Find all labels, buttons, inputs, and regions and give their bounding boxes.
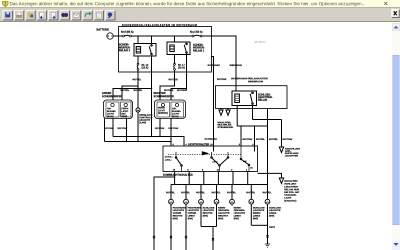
- wire: battery feed to fuse box: [113, 35, 122, 37]
- switch: combination light switch box: [163, 146, 258, 172]
- bulb: right high beam: [157, 102, 170, 117]
- wire: relay2 branch down to bus1: [151, 89, 153, 137]
- wire: relay contact pin down: [252, 106, 254, 120]
- wire: return bus 2 to light switch: [105, 141, 172, 143]
- fuse Nr.2 (50 A): [190, 30, 203, 37]
- node: bottom terminal numbers: [173, 170, 248, 172]
- wire: left low beam return: [112, 119, 114, 137]
- node: return wire colour labels: [104, 127, 179, 130]
- switch contact S1 dimmer: [165, 151, 210, 171]
- wire: relay 2 contact drop: [151, 36, 153, 44]
- wire: feed into relay: [235, 86, 237, 91]
- wire: right high beam return: [159, 119, 161, 137]
- junction dots on lamp bus: [174, 184, 248, 185]
- svg-text:(5W): (5W): [269, 215, 274, 218]
- svg-text:(1,4W): (1,4W): [139, 121, 146, 124]
- svg-text:SICHERUNGS-/RELAISKASTEN IM MO: SICHERUNGS-/RELAISKASTEN IM MOTORRAUM: [122, 24, 197, 27]
- lamp unit: right headlight: [155, 100, 186, 119]
- junction dots interior: [240, 119, 268, 127]
- node: wire colour labels above headlights: [121, 89, 188, 92]
- lamp L6 tail inner left: [246, 185, 265, 226]
- fuse Nr.13 (10 A): [137, 63, 149, 70]
- wire: left high beam return: [126, 119, 128, 142]
- wire: relay1 contact down out of box: [186, 55, 188, 91]
- scrollbar: [392, 22, 400, 250]
- wire: switch outputs to lamp bus: [175, 172, 248, 185]
- svg-text:WEISS/GN: WEISS/GN: [230, 64, 242, 67]
- svg-text:ROT/SW: ROT/SW: [243, 138, 253, 141]
- fuse Nr.9 (80 A): [121, 30, 134, 37]
- relay K2 SCHEINWERFER-RELAIS 2: [134, 44, 156, 57]
- lamp L5 licence plate left: [227, 185, 245, 221]
- fuse Nr.17 (10 A): [174, 63, 186, 70]
- svg-text:(Zt: MTxx): (Zt: MTxx): [254, 40, 266, 44]
- svg-text:ROT/EL: ROT/EL: [227, 191, 236, 194]
- svg-text:LICHTSCHALTER: LICHTSCHALTER: [188, 142, 209, 146]
- wire: mechanical link dashed: [168, 154, 242, 156]
- fuse/relay box engine compartment: [119, 27, 212, 73]
- svg-text:(FERNL): (FERNL): [165, 157, 173, 159]
- wire: relay2 contact down out of box: [151, 56, 153, 90]
- wire: relay 2 coil drop: [137, 36, 139, 44]
- svg-text:55W): 55W): [121, 115, 127, 118]
- wire: switch right side exit: [258, 173, 282, 178]
- toolbar: [0, 8, 400, 22]
- junction dot branch: [174, 176, 175, 177]
- wire: return bus 1 to light switch: [113, 137, 184, 147]
- lamp L4 licence plate right: [212, 185, 230, 227]
- lamp unit: left headlight: [104, 100, 133, 119]
- svg-text:ON: ON: [250, 168, 253, 170]
- wire: fuse17 jog to right headlight: [160, 70, 175, 100]
- wire: crossbar 2: [237, 125, 267, 127]
- bulb: left high beam: [121, 102, 132, 118]
- wire: box bottom drop right: [267, 109, 269, 120]
- wire: branch to left column: [154, 177, 175, 250]
- bulb: left low beam: [106, 102, 119, 118]
- switch contact S3: [240, 146, 253, 172]
- wire: merged drop: [212, 226, 214, 250]
- svg-text:LEUCHTEN: LEUCHTEN: [285, 154, 299, 157]
- connector: optional relay triangle: [279, 178, 283, 184]
- wire: relay1 jog to right headlight: [171, 55, 187, 101]
- wire: relay2 jog to left headlight high beam: [113, 56, 152, 100]
- svg-text:(5W): (5W): [253, 217, 258, 220]
- information bar: [0, 0, 400, 8]
- ground G401: [265, 226, 276, 247]
- lamp: high beam indicator inline: [136, 86, 140, 142]
- svg-text:(51W): (51W): [107, 115, 114, 118]
- lamp L3 tail right: [196, 185, 215, 227]
- svg-text:RELAIS: RELAIS: [258, 99, 268, 102]
- wire: feed to interior box drop: [202, 36, 236, 86]
- node: left headlight header: [102, 92, 174, 98]
- wire: box right side exit SCHWARZ: [212, 57, 214, 147]
- svg-text:(10 A): (10 A): [142, 67, 149, 70]
- switch contact S2 main light switch: [211, 152, 229, 172]
- svg-text:ROT/SW: ROT/SW: [283, 138, 293, 141]
- svg-text:(51W): (51W): [172, 115, 179, 118]
- wire: relay2 coil to fuse 13: [137, 56, 139, 63]
- wire: multiplex stubs: [221, 109, 228, 111]
- svg-text:ROT/EL: ROT/EL: [133, 78, 142, 81]
- wire: lamp bus: [171, 184, 268, 186]
- svg-text:(5W): (5W): [173, 217, 178, 220]
- svg-text:Nr.9 (80 A): Nr.9 (80 A): [121, 30, 134, 34]
- wire: merge bar L3/L4: [201, 226, 217, 228]
- junction dots on feed wire: [137, 35, 236, 36]
- wire: SCHWARZ into switch: [213, 146, 215, 152]
- svg-text:ROT/GE: ROT/GE: [217, 78, 227, 81]
- svg-text:SCHWARZ: SCHWARZ: [205, 138, 218, 141]
- svg-text:(5W): (5W): [234, 217, 239, 220]
- connector: multiplex triangle A: [219, 110, 223, 115]
- svg-text:SCHEINWERFER: SCHEINWERFER: [154, 95, 174, 98]
- svg-text:SCHEINWERFER: SCHEINWERFER: [102, 95, 122, 98]
- node: indicator label: [139, 115, 153, 125]
- fuse/relay box interior: [216, 86, 288, 109]
- lamp L2 position front left: [181, 185, 202, 250]
- svg-text:(10 A): (10 A): [178, 67, 185, 70]
- relay K3 SCHLUSSLEUCHTEN-RELAIS: [232, 91, 257, 106]
- wire: right low beam return: [170, 119, 172, 147]
- svg-text:(60/55W): (60/55W): [158, 112, 168, 115]
- svg-text:G401: G401: [269, 226, 276, 229]
- wire: ROT/EL into switch: [254, 146, 256, 152]
- svg-text:KOMBILICHTSCHALTER: KOMBILICHTSCHALTER: [163, 173, 193, 177]
- wire: relay coil pin down: [236, 106, 238, 127]
- svg-text:ROT/SW: ROT/SW: [169, 127, 179, 130]
- svg-text:ROT/EL: ROT/EL: [181, 191, 190, 194]
- svg-text:ROT/GE: ROT/GE: [104, 127, 114, 130]
- wire: drop to trailer connector: [281, 120, 283, 148]
- svg-text:ROT/EL: ROT/EL: [256, 138, 265, 141]
- svg-text:ROT/EL: ROT/EL: [196, 191, 205, 194]
- node: top terminal numbers: [173, 143, 255, 146]
- svg-text:ROT/SW: ROT/SW: [177, 89, 187, 92]
- svg-text:STEUERGER.: STEUERGER.: [218, 126, 234, 129]
- junction dots on jogs: [137, 85, 152, 89]
- connector: multiplex triangle B: [226, 110, 230, 115]
- svg-text:Nr.2 (50 A): Nr.2 (50 A): [190, 30, 203, 34]
- battery BATTERIE: [107, 33, 113, 39]
- svg-text:ROT/GE: ROT/GE: [155, 127, 165, 130]
- lamp L1 position front right: [166, 185, 187, 250]
- svg-text:ROT/GE: ROT/GE: [169, 78, 179, 81]
- wire: feed between fuses: [132, 35, 192, 37]
- wire: relay1 coil drop: [174, 36, 176, 42]
- svg-text:SCHWARZ: SCHWARZ: [208, 64, 221, 67]
- svg-text:ROT/EL: ROT/EL: [246, 191, 255, 194]
- svg-text:INNENRAUM: INNENRAUM: [248, 80, 263, 83]
- relay K1 SCHEINWERFER-RELAIS 1: [167, 42, 190, 55]
- svg-text:OFF: OFF: [243, 161, 248, 163]
- svg-text:ROT/EL: ROT/EL: [121, 89, 130, 92]
- bulb: right low beam: [171, 102, 184, 118]
- svg-text:(5W): (5W): [188, 217, 193, 220]
- svg-text:RELAIS 2: RELAIS 2: [119, 49, 131, 52]
- wire: merged drop to ground: [266, 225, 268, 244]
- svg-text:(ABBL): (ABBL): [165, 158, 172, 161]
- wire: feed to left tail lamps column: [267, 120, 269, 185]
- svg-text:ROT/EL: ROT/EL: [166, 191, 175, 194]
- svg-text:(5W): (5W): [203, 215, 208, 218]
- svg-text:(5W): (5W): [218, 217, 223, 220]
- lamp L7 tail left: [263, 185, 282, 226]
- wire: drop to light switch ROT/EL: [254, 126, 256, 146]
- wire: left box extra return: [104, 119, 106, 142]
- wire: drop to light switch ROT/SW: [240, 126, 242, 146]
- svg-text:ROT/SW: ROT/SW: [118, 127, 128, 130]
- junction dots on buses: [126, 136, 172, 142]
- svg-text:(KANADA): (KANADA): [284, 199, 296, 202]
- svg-text:(OFF): (OFF): [213, 162, 218, 164]
- wire: fuse13 jog to left headlight low beam: [122, 70, 138, 100]
- svg-text:ROT/EL: ROT/EL: [212, 191, 221, 194]
- svg-text:BATTERIE: BATTERIE: [97, 28, 110, 32]
- connector tick on left column: [153, 236, 155, 237]
- connector: trailer triangle: [279, 147, 283, 153]
- wire: merge bar L6/L7: [251, 224, 267, 226]
- svg-text:RELAIS 1: RELAIS 1: [193, 49, 205, 52]
- wire: crossbar 1: [253, 119, 282, 121]
- svg-text:ROT/EL: ROT/EL: [263, 191, 272, 194]
- svg-text:ROT/EL: ROT/EL: [269, 138, 278, 141]
- wire: relay1 coil to fuse 17: [174, 55, 176, 64]
- node: optional relay label: [284, 180, 300, 203]
